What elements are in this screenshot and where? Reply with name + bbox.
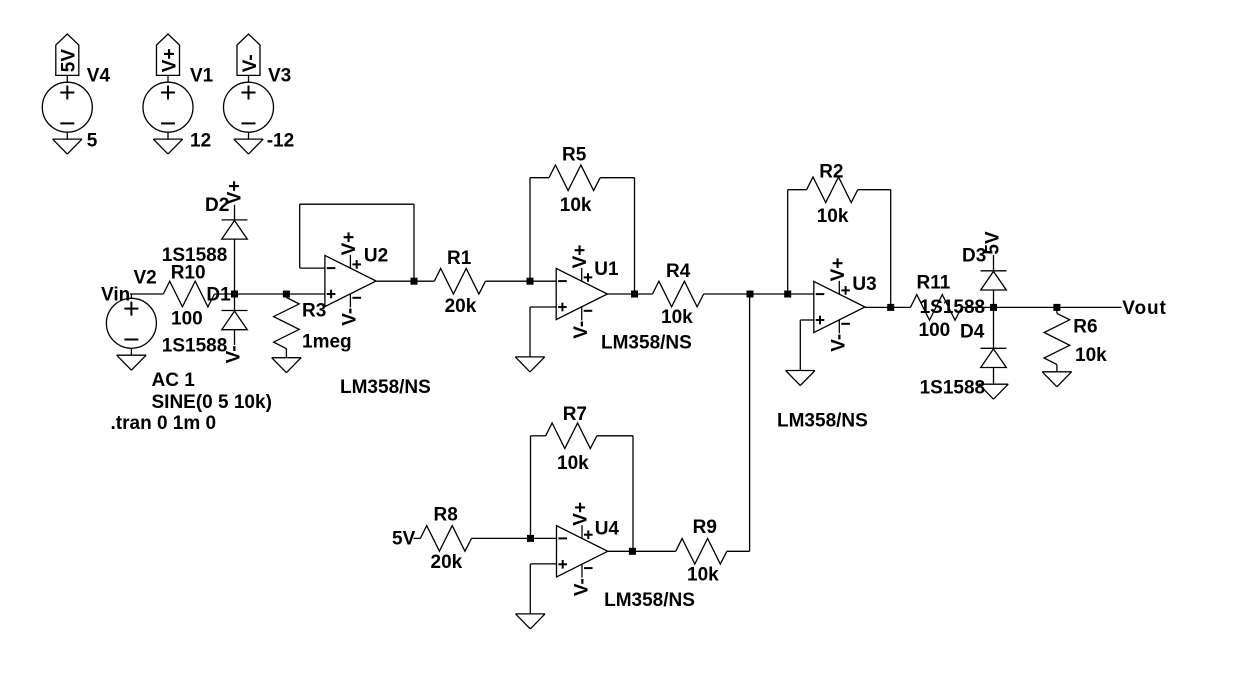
label R3 [302, 301, 326, 322]
svg-text:10k: 10k [1075, 345, 1107, 366]
svg-text:R3: R3 [302, 301, 326, 322]
svg-text:U1: U1 [594, 259, 619, 280]
wire [858, 189, 891, 191]
spice directive .tran 0 1m 0 [111, 413, 217, 434]
value LM358/NS [777, 411, 868, 432]
ground [515, 357, 544, 372]
node junction [527, 278, 534, 285]
value LM358/NS [601, 332, 692, 353]
label R10 [171, 262, 206, 283]
op-amp U1 [556, 268, 607, 320]
svg-text:V+: V+ [159, 48, 180, 72]
ground [272, 358, 301, 373]
value 12 [190, 131, 211, 152]
voltage source V3 [224, 82, 274, 132]
wire [414, 537, 421, 539]
svg-text:R9: R9 [693, 517, 717, 538]
svg-text:.tran 0 1m 0: .tran 0 1m 0 [111, 413, 217, 434]
net flag V- [224, 345, 245, 363]
wire [993, 290, 995, 307]
wire [634, 178, 636, 294]
wire [300, 203, 414, 205]
wire [234, 239, 236, 294]
op-amp U3 [814, 281, 865, 333]
wire [130, 294, 132, 298]
value 10k [687, 564, 719, 585]
svg-text:V3: V3 [268, 66, 291, 87]
resistor R6 [1044, 313, 1070, 364]
label V4 [87, 66, 111, 87]
net flag V+ [570, 245, 591, 269]
wire [529, 564, 531, 614]
resistor R3 [274, 298, 300, 349]
svg-text:V-: V- [571, 321, 592, 339]
value 1S1588 [920, 297, 986, 318]
label U2 [364, 246, 388, 267]
net flag V- [571, 321, 592, 339]
net flag 5V [983, 231, 1004, 255]
svg-text:20k: 20k [431, 552, 463, 573]
label U3 [852, 274, 876, 295]
ground [53, 139, 82, 154]
wire [529, 178, 531, 282]
label R2 [819, 161, 843, 182]
value 1S1588 [920, 377, 986, 398]
label U4 [595, 518, 620, 539]
svg-text:R8: R8 [434, 504, 458, 525]
label R11 [917, 272, 951, 293]
svg-text:R7: R7 [563, 404, 587, 425]
ground [979, 384, 1008, 399]
value SINE(0 5 10k) [152, 392, 272, 413]
svg-text:1meg: 1meg [302, 331, 352, 352]
label D1 [206, 285, 231, 306]
net flag V+ [571, 502, 592, 526]
resistor R1 [434, 268, 485, 294]
wire [215, 293, 235, 295]
svg-text:R1: R1 [447, 248, 472, 269]
wire [66, 132, 68, 139]
wire [531, 435, 546, 437]
wire [472, 537, 557, 539]
label R5 [562, 145, 587, 166]
label D3 [962, 246, 986, 267]
value -12 [267, 131, 294, 152]
wire [248, 75, 250, 82]
label R6 [1073, 317, 1097, 338]
node junction [747, 291, 754, 298]
wire [749, 294, 751, 551]
value 1S1588 [162, 336, 228, 357]
value 1meg [302, 331, 352, 352]
svg-text:10k: 10k [687, 564, 719, 585]
wire [727, 550, 750, 552]
label V3 [268, 66, 291, 87]
value 10k [817, 206, 849, 227]
node junction [411, 278, 418, 285]
value AC 1 [152, 370, 196, 391]
wire [300, 267, 325, 269]
svg-text:V4: V4 [87, 66, 111, 87]
node junction [887, 304, 894, 311]
label D2 [205, 195, 229, 216]
resistor R10 [163, 281, 214, 307]
node junction [990, 304, 997, 311]
node junction [283, 291, 290, 298]
wire [234, 330, 236, 345]
voltage source V2 [106, 298, 156, 348]
svg-text:V+: V+ [571, 502, 592, 526]
wire [530, 177, 549, 179]
svg-text:V+: V+ [339, 232, 360, 256]
wire [799, 320, 801, 371]
resistor R4 [653, 281, 704, 307]
net flag V+ (pentagon) [157, 34, 181, 75]
svg-text:Vout: Vout [1122, 298, 1166, 319]
svg-text:U3: U3 [852, 274, 876, 295]
wire [607, 293, 652, 295]
svg-text:R6: R6 [1073, 317, 1097, 338]
svg-text:V-: V- [224, 345, 245, 363]
value 10k [560, 195, 592, 216]
net flag 5V (pentagon) [56, 34, 80, 75]
value 1S1588 [162, 245, 228, 266]
svg-text:D3: D3 [962, 246, 986, 267]
wire [787, 190, 789, 294]
voltage source V1 [143, 82, 193, 132]
label R4 [666, 261, 691, 282]
svg-text:LM358/NS: LM358/NS [777, 411, 868, 432]
wire [632, 436, 634, 552]
label D4 [960, 322, 985, 343]
value 20k [431, 552, 463, 573]
label R7 [563, 404, 587, 425]
wire [376, 280, 434, 282]
wire [234, 205, 236, 220]
resistor R11 [910, 295, 961, 321]
value 100 [919, 320, 951, 341]
wire [530, 563, 556, 565]
resistor R7 [546, 423, 597, 449]
svg-text:V-: V- [340, 308, 361, 326]
wire [234, 294, 236, 311]
wire [529, 307, 531, 357]
ground [234, 139, 263, 154]
value 10k [1075, 345, 1107, 366]
wire [530, 306, 556, 308]
op-amp U4 [557, 525, 608, 577]
label V2 [134, 268, 157, 289]
label R9 [693, 517, 717, 538]
svg-text:U4: U4 [595, 518, 620, 539]
wire [962, 306, 1122, 308]
wire [865, 306, 910, 308]
wire [800, 319, 814, 321]
svg-text:10k: 10k [560, 195, 592, 216]
wire [993, 255, 995, 271]
node junction [629, 548, 636, 555]
value LM358/NS [604, 590, 695, 611]
svg-text:R2: R2 [819, 161, 843, 182]
resistor R8 [420, 526, 471, 552]
wire [285, 349, 287, 358]
label U1 [594, 259, 619, 280]
ground [117, 355, 146, 370]
svg-text:12: 12 [190, 131, 211, 152]
svg-text:1S1588: 1S1588 [162, 336, 228, 357]
wire [788, 189, 807, 191]
label R1 [447, 248, 472, 269]
svg-text:Vin: Vin [101, 285, 130, 306]
wire [993, 368, 995, 385]
svg-text:V+: V+ [570, 245, 591, 269]
svg-text:R5: R5 [562, 145, 587, 166]
net label 5V [392, 528, 416, 549]
diode D1 [222, 311, 248, 330]
label V1 [190, 66, 214, 87]
value 100 [171, 309, 203, 330]
wire [1056, 365, 1058, 372]
svg-text:V-: V- [571, 578, 592, 596]
svg-text:1S1588: 1S1588 [920, 297, 986, 318]
op-amp U2 [325, 255, 376, 307]
svg-text:LM358/NS: LM358/NS [601, 332, 692, 353]
net flag V+ [339, 232, 360, 256]
diode D4 [981, 348, 1007, 367]
wire [248, 132, 250, 139]
svg-text:R11: R11 [917, 272, 951, 293]
svg-text:V2: V2 [134, 268, 157, 289]
svg-text:U2: U2 [364, 246, 388, 267]
svg-text:100: 100 [171, 309, 203, 330]
svg-text:5V: 5V [59, 49, 80, 73]
svg-text:5V: 5V [392, 528, 416, 549]
svg-text:1S1588: 1S1588 [920, 377, 986, 398]
svg-text:10k: 10k [557, 453, 589, 474]
svg-text:-12: -12 [267, 131, 294, 152]
wire [167, 75, 169, 82]
svg-text:V1: V1 [190, 66, 214, 87]
svg-text:100: 100 [919, 320, 951, 341]
wire [890, 190, 892, 308]
label Vout [1122, 298, 1166, 319]
svg-text:R4: R4 [666, 261, 691, 282]
ground [516, 614, 545, 629]
wire [993, 307, 995, 348]
svg-text:V-: V- [240, 54, 261, 72]
wire [235, 293, 287, 295]
value 20k [445, 296, 477, 317]
wire [1056, 307, 1058, 313]
svg-text:LM358/NS: LM358/NS [340, 377, 431, 398]
wire [130, 348, 132, 355]
net flag V- (pentagon) [237, 34, 261, 75]
diode D3 [981, 271, 1007, 290]
resistor R5 [549, 165, 600, 191]
svg-text:SINE(0 5 10k): SINE(0 5 10k) [152, 392, 272, 413]
wire [597, 435, 633, 437]
value 5 [87, 131, 98, 152]
net flag V+ [828, 258, 849, 282]
wire [130, 293, 163, 295]
ground [786, 371, 815, 386]
value 10k [661, 307, 693, 328]
net flag V- [340, 308, 361, 326]
svg-text:5: 5 [87, 131, 98, 152]
net flag V- [571, 578, 592, 596]
node junction [1053, 304, 1060, 311]
wire [600, 177, 634, 179]
net flag V- [829, 334, 850, 352]
svg-text:20k: 20k [445, 296, 477, 317]
svg-text:D4: D4 [960, 322, 985, 343]
svg-text:10k: 10k [817, 206, 849, 227]
ground [1042, 372, 1071, 387]
wire [413, 204, 415, 281]
ground [153, 139, 182, 154]
svg-text:V+: V+ [828, 258, 849, 282]
wire [530, 436, 532, 539]
svg-text:V-: V- [829, 334, 850, 352]
value LM358/NS [340, 377, 431, 398]
svg-text:D1: D1 [206, 285, 231, 306]
node junction [784, 291, 791, 298]
svg-text:AC 1: AC 1 [152, 370, 196, 391]
net flag V+ [224, 181, 245, 205]
resistor R2 [807, 177, 858, 203]
wire [608, 550, 676, 552]
svg-text:10k: 10k [661, 307, 693, 328]
wire [66, 75, 68, 82]
value 10k [557, 453, 589, 474]
wire [167, 132, 169, 139]
voltage source V4 [42, 82, 92, 132]
resistor R9 [676, 539, 727, 565]
wire [286, 293, 325, 295]
label R8 [434, 504, 458, 525]
label Vin [101, 285, 130, 306]
svg-text:1S1588: 1S1588 [162, 245, 228, 266]
wire [704, 293, 814, 295]
svg-text:LM358/NS: LM358/NS [604, 590, 695, 611]
node junction [527, 535, 534, 542]
wire [486, 280, 557, 282]
node junction [231, 291, 238, 298]
wire [299, 204, 301, 268]
diode D2 [222, 220, 248, 239]
svg-text:D2: D2 [205, 195, 229, 216]
node junction [631, 291, 638, 298]
